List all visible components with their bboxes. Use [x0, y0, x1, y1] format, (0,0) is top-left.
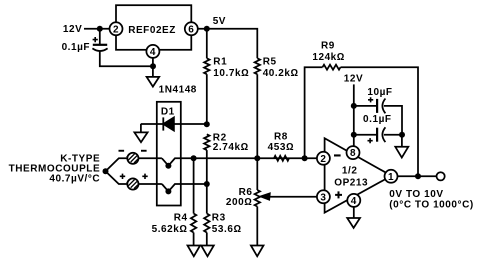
svg-text:(0°C TO 1000°C): (0°C TO 1000°C) — [389, 200, 473, 211]
svg-text:53.6Ω: 53.6Ω — [212, 224, 242, 235]
svg-text:12V: 12V — [344, 74, 363, 85]
U2 pin 3 (non-inverting) — [317, 190, 330, 203]
R6 label — [226, 187, 253, 208]
wire C2 left lead — [354, 105, 377, 107]
ground arrow op-amp — [347, 218, 360, 228]
svg-text:R4: R4 — [174, 212, 188, 223]
wire R2 down to plus wire — [206, 150, 208, 184]
svg-text:3: 3 — [320, 192, 326, 203]
wire 5V rail — [198, 29, 257, 59]
wire R5 to minus wire — [256, 74, 258, 158]
svg-text:0.1µF: 0.1µF — [363, 114, 392, 125]
node: V plus — [165, 188, 171, 194]
U1 pin 4 — [146, 45, 159, 58]
wire to minus junction — [106, 158, 128, 171]
wire 5V to R1 — [206, 29, 208, 59]
svg-text:1/2: 1/2 — [342, 166, 358, 177]
wire minus lead to R8 — [194, 157, 318, 159]
node: pin4 / C1 / arrow junction — [150, 63, 156, 69]
svg-text:4: 4 — [351, 196, 357, 207]
R1 label — [213, 56, 249, 79]
U1 pin 2 — [110, 22, 123, 35]
node: 12V / C3 — [351, 132, 357, 138]
node: thermocouple junction — [103, 168, 109, 174]
node 5V — [204, 26, 210, 32]
ground arrow below pin 4 — [147, 77, 160, 87]
svg-text:4: 4 — [150, 47, 156, 58]
output label — [389, 189, 473, 211]
U2 pin 2 (inverting) — [317, 152, 330, 165]
svg-text:5V: 5V — [213, 16, 226, 27]
svg-text:8: 8 — [350, 148, 356, 159]
isothermal block box — [157, 102, 181, 206]
1N4148 label — [159, 84, 197, 95]
wire to plus junction — [106, 171, 128, 184]
ground arrow at C3 — [395, 147, 408, 158]
wire C2 right lead — [384, 106, 402, 135]
wire pin 4 to ground — [353, 207, 355, 218]
svg-text:5.62kΩ: 5.62kΩ — [152, 224, 188, 235]
svg-text:1N4148: 1N4148 — [159, 84, 197, 95]
plus polarity marks — [120, 174, 148, 179]
node: R8 / R9 branch — [302, 155, 308, 161]
U1 pin 6 — [185, 22, 198, 35]
svg-text:40.7µV/°C: 40.7µV/°C — [49, 174, 100, 185]
svg-text:40.2kΩ: 40.2kΩ — [263, 68, 299, 79]
svg-text:0.1µF: 0.1µF — [62, 42, 91, 53]
wire R9 left branch — [305, 67, 323, 158]
K-type thermocouple label — [9, 154, 101, 185]
op-amp plus sign — [335, 191, 342, 198]
wire C1 bottom lead to pin4 node — [100, 51, 153, 66]
R2 label — [213, 133, 249, 154]
ground arrow R3 — [201, 246, 214, 257]
svg-text:10µF: 10µF — [367, 87, 392, 98]
potentiometer R6 — [255, 190, 260, 207]
svg-text:453Ω: 453Ω — [268, 142, 295, 153]
resistor R9 — [323, 65, 341, 70]
svg-text:1: 1 — [388, 172, 394, 183]
voltage reference U1 REF02EZ body — [116, 5, 191, 50]
U2 pin 1 (output) — [385, 170, 398, 183]
R6 wiper arrow — [261, 193, 318, 199]
12V supply label (op-amp) — [344, 74, 363, 85]
U2 pin 8 (V+) — [347, 146, 360, 159]
resistor R8 — [274, 156, 289, 161]
D1 label — [161, 106, 175, 117]
cold junction (minus lead) — [127, 153, 139, 164]
wire R3 from plus wire — [206, 184, 208, 214]
resistor R1 — [204, 58, 209, 74]
svg-text:R9: R9 — [321, 41, 335, 52]
diode D1 1N4148 — [141, 117, 207, 130]
R9 label — [312, 41, 345, 64]
op-amp minus sign — [334, 154, 341, 156]
ground arrow R6 — [251, 246, 264, 257]
svg-text:D1: D1 — [161, 106, 175, 117]
wire R6 to ground — [256, 207, 258, 246]
V-dip minus inside box — [162, 158, 194, 165]
node A: R1/D1/R2 junction — [204, 121, 210, 127]
wire R4 from minus wire — [193, 158, 195, 213]
op-amp U2 triangle — [325, 138, 392, 212]
U2 pin 4 (V-) — [347, 194, 360, 207]
V-dip plus inside box — [162, 184, 207, 191]
node: C3 / ground — [399, 132, 405, 138]
resistor R5 — [255, 58, 260, 74]
op-amp label — [334, 166, 368, 189]
svg-text:2.74kΩ: 2.74kΩ — [213, 142, 249, 153]
R4 label — [152, 212, 188, 235]
wire R4 to ground — [193, 233, 195, 246]
wire C3 to ground arrow — [401, 135, 403, 147]
ground arrow R4 — [188, 246, 201, 257]
R8 label — [268, 132, 295, 154]
wire 12V down to pin 8 — [353, 84, 355, 146]
R3 label — [212, 212, 242, 235]
svg-text:R5: R5 — [263, 56, 277, 67]
svg-text:2: 2 — [320, 154, 326, 165]
svg-text:R1: R1 — [213, 56, 227, 67]
wire pin 4 down — [152, 58, 154, 77]
wire C3 right lead — [384, 134, 402, 136]
resistor R3 — [204, 214, 209, 233]
output terminal — [437, 172, 445, 180]
wire minus lead into box — [139, 157, 162, 159]
wire C3 left lead — [354, 134, 377, 136]
svg-text:124kΩ: 124kΩ — [312, 52, 345, 63]
svg-text:R8: R8 — [274, 132, 288, 143]
svg-text:12V: 12V — [63, 24, 82, 35]
node: 12V / C1 junction — [97, 26, 103, 32]
capacitor C3 0.1uF — [363, 114, 392, 143]
ground arrow at D1 — [134, 132, 147, 142]
U1 label — [128, 25, 176, 36]
svg-text:0V TO 10V: 0V TO 10V — [389, 189, 443, 200]
svg-text:OP213: OP213 — [334, 178, 368, 189]
node: V minus — [165, 163, 171, 169]
R5 label — [263, 56, 299, 79]
minus polarity marks — [119, 150, 147, 152]
wire output — [398, 175, 437, 177]
wire R1 to node A — [206, 74, 208, 124]
resistor R4 — [191, 214, 196, 233]
wire plus lead into box — [139, 183, 162, 185]
node: minus wire / R5 / R6 — [254, 155, 260, 161]
node: plus wire / R2-R3 — [204, 181, 210, 187]
wire D1 anode down — [140, 124, 142, 133]
svg-text:REF02EZ: REF02EZ — [128, 25, 176, 36]
resistor R2 — [204, 134, 209, 150]
svg-text:200Ω: 200Ω — [226, 197, 253, 208]
svg-text:6: 6 — [188, 24, 194, 35]
node: 12V / C2 — [351, 103, 357, 109]
wire R9 right branch — [341, 67, 419, 176]
wire C1 top lead — [99, 29, 101, 44]
svg-text:2: 2 — [113, 24, 119, 35]
node: R4 tap — [191, 155, 197, 161]
capacitor C2 10uF — [367, 87, 392, 113]
wire R3 to ground — [206, 233, 208, 246]
12V supply label (left) — [63, 24, 82, 35]
node: output / R9 — [415, 173, 421, 179]
svg-text:10.7kΩ: 10.7kΩ — [213, 68, 249, 79]
svg-text:R3: R3 — [212, 212, 226, 223]
5V label — [213, 16, 226, 27]
wire 12V to pin 2 — [84, 28, 110, 30]
capacitor C1 0.1uF (polarized) — [62, 37, 108, 53]
wire R6 from minus wire — [256, 158, 258, 190]
cold junction (plus lead) — [127, 178, 139, 189]
